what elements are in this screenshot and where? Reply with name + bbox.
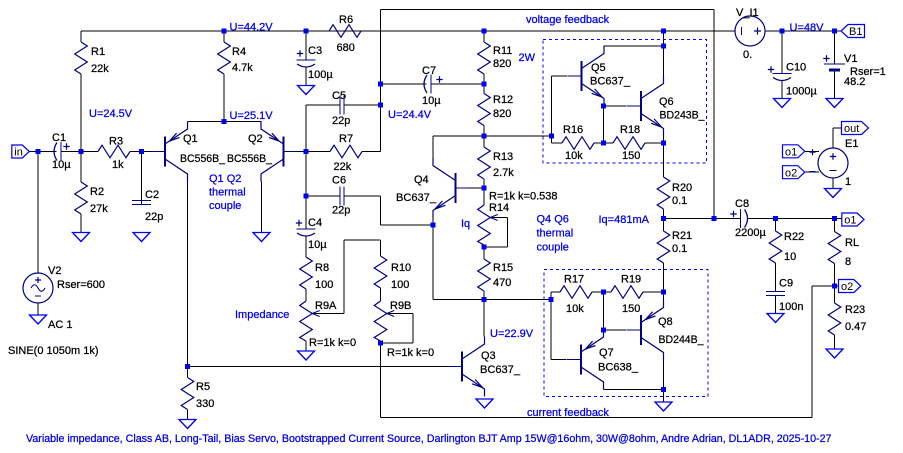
- wire C6 to Q4 emitter: [381, 224, 434, 226]
- svg-text:Q4 Q6: Q4 Q6: [537, 214, 569, 226]
- ground R2: [73, 233, 90, 242]
- wire V1 ground stem: [834, 72, 836, 99]
- junction R1 R2 R3: [79, 149, 84, 154]
- wire V1 column: [834, 31, 836, 64]
- potentiometer R14: [478, 188, 491, 247]
- svg-text:BC556B_: BC556B_: [180, 153, 226, 165]
- svg-text:22p: 22p: [145, 211, 163, 223]
- wire C10 column: [781, 31, 783, 74]
- svg-text:R20: R20: [672, 182, 692, 194]
- junction R9B bottom: [378, 341, 383, 346]
- svg-text:Iq=481mA: Iq=481mA: [599, 214, 650, 226]
- resistor R8: [300, 236, 313, 295]
- svg-text:C9: C9: [779, 278, 793, 290]
- svg-text:BD244B_: BD244B_: [659, 334, 705, 346]
- wire Q3 collector up: [483, 300, 485, 337]
- voltage source V2: [23, 273, 53, 303]
- svg-text:48.2: 48.2: [844, 76, 865, 88]
- svg-text:Q1 Q2: Q1 Q2: [209, 173, 241, 185]
- svg-text:150: 150: [622, 303, 640, 315]
- junction output o1: [832, 216, 837, 221]
- svg-text:R3: R3: [109, 136, 123, 148]
- svg-text:thermal: thermal: [537, 228, 574, 240]
- capacitor C2: [132, 152, 151, 205]
- svg-text:R=1k k=0.538: R=1k k=0.538: [489, 191, 558, 203]
- svg-text:couple: couple: [537, 242, 569, 254]
- junction R18 Q6 emitter: [661, 141, 666, 146]
- svg-text:U=22.9V: U=22.9V: [490, 328, 534, 340]
- svg-text:R22: R22: [784, 231, 804, 243]
- wire R9B wiper to junction: [381, 342, 414, 344]
- svg-text:1k: 1k: [112, 159, 124, 171]
- wire Q6 base lead: [604, 105, 627, 107]
- wire E1 ground stem: [832, 178, 834, 189]
- junction R19 R21: [661, 290, 666, 295]
- svg-text:current feedback: current feedback: [527, 407, 609, 419]
- voltage source V_I1: [735, 16, 765, 46]
- port o2 output: [839, 280, 861, 294]
- wire C10 ground stem: [781, 81, 783, 99]
- wire C1 to R3: [66, 151, 99, 153]
- port o1 control: [783, 145, 805, 159]
- svg-text:R9B: R9B: [390, 300, 411, 312]
- junction C7 R11 R12: [482, 82, 487, 87]
- controlled source E1: [810, 148, 849, 178]
- junction R3 C2 Q1: [139, 149, 144, 154]
- svg-text:R=1k k=0: R=1k k=0: [387, 347, 434, 359]
- wire E1 o2 control: [805, 171, 820, 173]
- svg-text:BC637_: BC637_: [396, 192, 437, 204]
- svg-text:0.47: 0.47: [845, 321, 866, 333]
- port out: [842, 122, 869, 136]
- svg-text:SINE(0 1050m 1k): SINE(0 1050m 1k): [8, 345, 98, 357]
- ground V1: [826, 99, 843, 108]
- svg-text:voltage feedback: voltage feedback: [526, 14, 610, 26]
- svg-text:Q4: Q4: [414, 174, 429, 186]
- wire R1 column: [80, 74, 82, 152]
- svg-text:0.1: 0.1: [672, 243, 687, 255]
- svg-text:R21: R21: [672, 230, 692, 242]
- svg-text:R5: R5: [196, 381, 210, 393]
- svg-text:0.: 0.: [743, 49, 752, 61]
- wire C5 left column: [305, 105, 307, 196]
- resistor R16: [552, 137, 604, 150]
- capacitor C10: [768, 31, 792, 99]
- resistor R7: [306, 145, 381, 158]
- junction Q5 collector: [661, 44, 666, 49]
- svg-text:BD243B_: BD243B_: [660, 110, 706, 122]
- transistor Q2: [261, 122, 298, 182]
- wire emitter rail Q1 Q2: [188, 121, 262, 123]
- wire o2 stub: [835, 285, 839, 287]
- svg-text:C2: C2: [145, 189, 159, 201]
- svg-text:C4: C4: [308, 217, 322, 229]
- svg-text:10µ: 10µ: [52, 159, 71, 171]
- wire C5 row right: [345, 104, 381, 106]
- resistor R13: [478, 136, 491, 188]
- svg-text:BC637_: BC637_: [480, 364, 521, 376]
- svg-text:R8: R8: [315, 262, 329, 274]
- svg-text:Rser=600: Rser=600: [57, 279, 105, 291]
- wire R9B wiper down: [412, 314, 414, 344]
- capacitor C5: [306, 96, 381, 115]
- svg-text:100n: 100n: [779, 301, 803, 313]
- svg-text:BC638_: BC638_: [598, 362, 639, 374]
- capacitor C6: [306, 187, 381, 206]
- wire C5 C7 column: [380, 10, 382, 152]
- svg-text:out: out: [844, 123, 859, 135]
- wire R12 junction to R16: [484, 135, 552, 137]
- junction rail R4: [222, 29, 227, 34]
- svg-text:1: 1: [845, 176, 851, 188]
- capacitor C3: [297, 31, 316, 86]
- resistor R15: [478, 247, 491, 300]
- svg-text:o1: o1: [785, 147, 797, 159]
- potentiometer R9A: [300, 289, 313, 351]
- svg-text:Q2: Q2: [248, 133, 263, 145]
- junction Q8 base: [601, 328, 606, 333]
- wire long tail to R15 foot: [433, 299, 484, 301]
- svg-text:R19: R19: [621, 274, 641, 286]
- junction R13 Q4 base: [482, 186, 487, 191]
- svg-text:C10: C10: [786, 62, 806, 74]
- resistor RL: [828, 219, 841, 287]
- svg-text:10k: 10k: [566, 303, 584, 315]
- svg-text:R12: R12: [493, 94, 513, 106]
- wire Q1 collector: [187, 182, 189, 367]
- wire R17 lead left: [551, 291, 560, 293]
- resistor R17: [551, 286, 604, 299]
- junction R14 bottom: [482, 245, 487, 250]
- wire Q2 collector: [261, 182, 263, 233]
- svg-text:R13: R13: [493, 151, 513, 163]
- resistor R21: [657, 219, 670, 293]
- wire R16 jog: [551, 136, 553, 143]
- wire R17 jog: [550, 292, 552, 300]
- wire Q6 collector up: [663, 31, 665, 46]
- svg-text:C3: C3: [308, 45, 322, 57]
- svg-text:R7: R7: [339, 133, 353, 145]
- wire top +48V rail left: [81, 30, 735, 32]
- wire Q8 emitter up: [663, 292, 665, 300]
- ground C2: [133, 233, 150, 242]
- junction R4 emitters: [222, 119, 227, 124]
- transistor Q6: [627, 76, 664, 136]
- wire in port to C1: [29, 151, 57, 153]
- wire Q3 base row: [188, 366, 463, 368]
- wire Q7 emitter stub: [603, 329, 605, 332]
- wire top +48V rail right: [765, 30, 841, 32]
- junction rail Q6: [661, 29, 666, 34]
- svg-text:U=24.5V: U=24.5V: [89, 108, 133, 120]
- wire Q4 emitter stub down: [432, 218, 434, 225]
- wire Q4 long tail down: [432, 225, 434, 300]
- capacitor C7: [381, 75, 485, 94]
- svg-text:AC 1: AC 1: [48, 319, 72, 331]
- junction R12 R13: [482, 134, 487, 139]
- svg-text:R17: R17: [564, 274, 584, 286]
- wire current feedback bottom: [381, 417, 813, 419]
- ground R9A: [298, 351, 315, 360]
- wire R12 junction to Q4: [433, 135, 484, 137]
- svg-text:o2: o2: [785, 167, 797, 179]
- junction Q2 base: [304, 149, 309, 154]
- svg-text:BC556B_: BC556B_: [227, 153, 273, 165]
- port o1 output: [842, 213, 864, 227]
- potentiometer R9B wiper: [387, 311, 413, 317]
- port in: [12, 145, 30, 159]
- ground Q8: [655, 402, 672, 411]
- svg-text:Q5: Q5: [591, 62, 606, 74]
- svg-text:R23: R23: [845, 304, 865, 316]
- svg-text:22k: 22k: [334, 161, 352, 173]
- svg-text:R1: R1: [91, 46, 105, 58]
- svg-text:10k: 10k: [565, 150, 583, 162]
- svg-text:R4: R4: [232, 46, 246, 58]
- ground C3: [298, 86, 315, 95]
- resistor R18: [604, 137, 664, 150]
- junction R15 bottom: [482, 297, 487, 302]
- wire B1 stub: [835, 30, 842, 32]
- svg-text:R6: R6: [339, 14, 353, 26]
- svg-text:820: 820: [493, 108, 511, 120]
- wire R9A wiper up: [343, 240, 345, 314]
- svg-text:o1: o1: [844, 215, 856, 227]
- wire Q4 collector up: [432, 136, 434, 158]
- resistor R22: [769, 219, 782, 290]
- svg-text:B1: B1: [849, 26, 862, 38]
- wire V2 ground stem: [37, 303, 39, 315]
- svg-text:2.7k: 2.7k: [493, 167, 514, 179]
- transistor Q8: [627, 300, 664, 360]
- potentiometer R14 wiper: [490, 215, 507, 221]
- wire Q6 collector stub: [663, 46, 665, 76]
- transistor Q7: [567, 330, 604, 390]
- svg-text:RL: RL: [845, 237, 859, 249]
- svg-text:C7: C7: [422, 65, 436, 77]
- ground Q3: [476, 399, 493, 408]
- wire R4 column: [223, 74, 225, 122]
- wire current feedback to o2: [812, 285, 835, 287]
- port o2 control: [783, 166, 805, 180]
- wire E1 out up: [832, 128, 834, 148]
- wire R13 base row: [456, 187, 485, 189]
- wire C5 row left: [306, 104, 340, 106]
- junction C5 right: [378, 103, 383, 108]
- resistor R3: [66, 145, 152, 158]
- junction R17 left: [549, 297, 554, 302]
- resistor R4: [218, 31, 231, 122]
- wire output rail left: [664, 218, 739, 220]
- svg-text:8: 8: [845, 256, 851, 268]
- svg-text:150: 150: [622, 150, 640, 162]
- wire Q7 base column: [550, 300, 552, 360]
- wire R9B junction down: [380, 343, 382, 418]
- svg-text:22k: 22k: [91, 63, 109, 75]
- svg-text:U=48V: U=48V: [790, 22, 825, 34]
- svg-text:Iq: Iq: [461, 218, 470, 230]
- resistor R2: [75, 152, 88, 233]
- svg-text:V2: V2: [48, 265, 61, 277]
- svg-text:C6: C6: [332, 175, 346, 187]
- wire Q7 collector row: [604, 389, 664, 391]
- resistor R10: [374, 256, 387, 295]
- resistor R20: [657, 143, 670, 219]
- capacitor C1: [38, 142, 81, 161]
- svg-text:22p: 22p: [332, 205, 350, 217]
- wire output rail right: [748, 218, 842, 220]
- potentiometer R9A wiper: [312, 311, 344, 317]
- wire Q5 emitter to Q6 base: [603, 106, 605, 143]
- svg-text:U=44.2V: U=44.2V: [230, 22, 274, 34]
- svg-text:10: 10: [784, 251, 796, 263]
- junction RL o2: [832, 284, 837, 289]
- svg-text:R18: R18: [620, 124, 640, 136]
- wire R9A wiper top row: [344, 239, 381, 241]
- resistor R12: [478, 84, 491, 136]
- transistor Q1: [151, 122, 188, 182]
- wire R17 R19 junction down: [603, 292, 605, 330]
- resistor R1: [75, 31, 88, 152]
- svg-text:R=1k k=0: R=1k k=0: [309, 337, 356, 349]
- wire C6 down jog: [380, 196, 382, 225]
- svg-text:in: in: [14, 147, 23, 159]
- wire C2 column: [141, 152, 143, 201]
- svg-text:470: 470: [493, 277, 511, 289]
- wire C7 row right: [431, 83, 484, 85]
- svg-text:R16: R16: [563, 124, 583, 136]
- wire R16 lead left: [552, 142, 563, 144]
- wire C6 row left: [306, 195, 340, 197]
- junction R16 R18: [601, 141, 606, 146]
- wire R14 wiper to junction: [484, 246, 508, 248]
- svg-text:10µ: 10µ: [422, 95, 441, 107]
- wire E1 out to flag: [833, 127, 842, 129]
- junction R17 R19: [601, 290, 606, 295]
- ground R5: [179, 420, 196, 429]
- wire Q7 base lead: [551, 359, 567, 361]
- junction Q7 Q8 collector: [661, 387, 666, 392]
- junction feedback output: [712, 216, 717, 221]
- ground V2: [30, 315, 47, 324]
- svg-text:100: 100: [391, 279, 409, 291]
- wire Q2 base: [284, 151, 307, 153]
- svg-text:100µ: 100µ: [308, 69, 333, 81]
- junction Q4 emitter: [431, 223, 436, 228]
- wire C4 top lead: [305, 196, 307, 229]
- transistor Q5: [568, 46, 605, 106]
- junction C6 left: [304, 194, 309, 199]
- wire E1 o1 control: [805, 150, 820, 152]
- wire voltage feedback down: [713, 10, 715, 219]
- junction R16 left: [549, 134, 554, 139]
- svg-text:V_I1: V_I1: [736, 7, 759, 19]
- junction rail V1: [832, 29, 837, 34]
- junction Q6 base: [601, 104, 606, 109]
- svg-text:10µ: 10µ: [308, 239, 327, 251]
- voltage source V1 battery: [823, 55, 845, 70]
- svg-text:1000µ: 1000µ: [786, 86, 817, 98]
- wire Q8 base lead: [604, 329, 627, 331]
- svg-text:C8: C8: [735, 198, 749, 210]
- wire V2 column: [37, 152, 39, 274]
- junction Q1 collector R5: [185, 364, 190, 369]
- wire Q5 base lead: [552, 75, 568, 77]
- junction rail C10: [780, 29, 785, 34]
- svg-text:R9A: R9A: [315, 300, 337, 312]
- svg-text:27k: 27k: [90, 203, 108, 215]
- svg-text:4.7k: 4.7k: [232, 62, 253, 74]
- junction C7 left: [378, 82, 383, 87]
- svg-text:C5: C5: [332, 90, 346, 102]
- ground C9: [767, 314, 784, 323]
- transistor Q4: [433, 158, 470, 218]
- wire C7 row left: [381, 83, 427, 85]
- capacitor C9: [766, 263, 785, 314]
- svg-text:U=25.1V: U=25.1V: [230, 110, 274, 122]
- transistor Q3: [448, 337, 485, 397]
- wire C6 row right: [345, 195, 381, 197]
- svg-text:Variable impedance, Class AB,: Variable impedance, Class AB, Long-Tail,…: [26, 433, 832, 445]
- wire Q8 collector down: [663, 360, 665, 390]
- svg-text:Q7: Q7: [599, 347, 614, 359]
- svg-text:22p: 22p: [332, 115, 350, 127]
- svg-text:BC637_: BC637_: [590, 76, 631, 88]
- wire Q5 collector top: [604, 45, 664, 47]
- svg-text:680: 680: [337, 42, 355, 54]
- ground R23: [826, 349, 843, 358]
- resistor R5: [181, 367, 194, 420]
- resistor R19: [604, 286, 664, 299]
- potentiometer R9B: [374, 288, 387, 343]
- svg-text:C1: C1: [52, 132, 66, 144]
- wire voltage feedback top: [381, 9, 715, 11]
- ground Q2 collector: [253, 233, 270, 242]
- wire R15 foot to box: [484, 299, 551, 301]
- junction rail R11: [482, 29, 487, 34]
- wire R10 top lead: [380, 240, 382, 256]
- svg-text:330: 330: [196, 398, 214, 410]
- svg-text:R2: R2: [90, 186, 104, 198]
- capacitor C4: [296, 220, 316, 257]
- wire R3 to Q1 base: [130, 151, 151, 153]
- capacitor C8: [714, 209, 776, 228]
- svg-text:Q1: Q1: [183, 133, 198, 145]
- svg-text:thermal: thermal: [209, 187, 246, 199]
- ground E1: [825, 189, 842, 198]
- wire current feedback up: [811, 286, 813, 418]
- svg-text:R10: R10: [391, 262, 411, 274]
- svg-text:R15: R15: [493, 262, 513, 274]
- junction C8 R22: [773, 216, 778, 221]
- svg-text:E1: E1: [845, 138, 858, 150]
- svg-text:U=24.4V: U=24.4V: [388, 109, 432, 121]
- svg-text:V1: V1: [844, 53, 857, 65]
- wire Q6 emitter stub: [663, 136, 665, 143]
- dashed box Q5 Q6 thermal couple: [543, 40, 707, 164]
- svg-text:couple: couple: [209, 200, 241, 212]
- svg-text:0.1: 0.1: [672, 195, 687, 207]
- svg-text:Q6: Q6: [659, 96, 674, 108]
- junction R20 R21: [661, 216, 666, 221]
- svg-text:R11: R11: [493, 45, 512, 57]
- svg-text:100: 100: [315, 279, 333, 291]
- svg-text:Q8: Q8: [658, 316, 673, 328]
- ground C10: [774, 99, 791, 108]
- junction rail C3: [304, 29, 309, 34]
- wire Q5 base column: [551, 76, 553, 136]
- dashed box Q7 Q8 thermal couple: [544, 270, 708, 397]
